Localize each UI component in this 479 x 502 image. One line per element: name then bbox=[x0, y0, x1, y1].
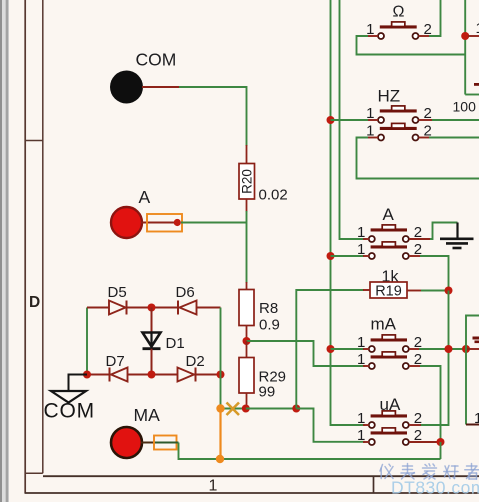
resistor R20 bbox=[239, 164, 255, 200]
label D6 bbox=[176, 284, 195, 301]
label D1 bbox=[166, 335, 185, 352]
pin labels uA row1 bbox=[357, 410, 422, 427]
resistor R29 bbox=[239, 358, 254, 394]
frame corner step bbox=[25, 472, 43, 474]
wire omega stub right edge bbox=[468, 35, 479, 37]
svg-text:HZ: HZ bbox=[378, 87, 401, 106]
wire omega right vertical bbox=[464, 0, 466, 95]
error marker X bbox=[227, 403, 240, 416]
wire bridge left vertical bbox=[86, 308, 88, 375]
label mA switch bbox=[371, 315, 397, 334]
diode D5 bbox=[109, 301, 127, 315]
switch A contacts row (A row1) bbox=[369, 225, 409, 242]
wire R29 bottom stub bbox=[246, 393, 248, 409]
diode D7 bbox=[110, 368, 128, 382]
diode D2 bbox=[178, 368, 196, 382]
wire A row1 pin2 bbox=[409, 223, 458, 240]
label COM bbox=[136, 50, 177, 70]
wire node to uA row2 bbox=[296, 409, 365, 442]
wire mA row2 pin1 stub bbox=[363, 365, 369, 367]
left window edge gray strip bbox=[0, 0, 9, 502]
wire omega pin1 bbox=[357, 36, 466, 55]
wire bridge right vertical bbox=[220, 308, 222, 409]
pin labels A row2 bbox=[357, 241, 422, 258]
svg-text:Ω: Ω bbox=[393, 4, 405, 21]
svg-text:D: D bbox=[29, 294, 40, 311]
svg-text:COM: COM bbox=[44, 400, 95, 423]
wire A row2 pin1 bbox=[331, 255, 370, 257]
terminal COM bbox=[110, 71, 143, 104]
svg-text:1: 1 bbox=[209, 478, 218, 495]
wire orange-node to R29 node bbox=[221, 408, 246, 410]
wire COM to R20 bbox=[179, 87, 247, 146]
wire main bus bbox=[331, 0, 366, 425]
wire A pin bbox=[141, 222, 150, 224]
junction R19 right bbox=[445, 287, 453, 295]
label 1k bbox=[382, 269, 400, 286]
switch MA-range contacts row (mA row1) bbox=[369, 335, 409, 352]
svg-text:1: 1 bbox=[476, 20, 479, 37]
ground COM symbol bbox=[51, 391, 86, 403]
wire uA row1 pin1 stub bbox=[363, 424, 369, 426]
orange dot node bbox=[216, 404, 224, 412]
svg-text:D7: D7 bbox=[106, 353, 125, 370]
wire orange highlighted bbox=[219, 409, 221, 460]
label D5 bbox=[108, 284, 127, 301]
junction bus A row2 bbox=[327, 252, 335, 260]
wire D1 bottom bbox=[151, 349, 153, 375]
wire R20 bottom stub bbox=[246, 199, 248, 212]
terminal A bbox=[111, 207, 142, 238]
diode D6 bbox=[178, 301, 197, 315]
junction R29 bottom bbox=[242, 405, 250, 413]
svg-text:mA: mA bbox=[371, 315, 397, 334]
pin labels HZ row2 bbox=[366, 123, 432, 140]
wire uA row2 pin2 bbox=[409, 441, 441, 443]
wire A row1 pin1 stub bbox=[363, 238, 369, 240]
fuse F2 (MA) bbox=[154, 436, 179, 450]
svg-text:R19: R19 bbox=[375, 284, 402, 300]
wire R8 to R29 bbox=[246, 341, 248, 358]
svg-text:D1: D1 bbox=[166, 335, 185, 352]
frame inner bottom border bbox=[43, 475, 479, 477]
switch UA-range pole2 contacts row (uA row2) bbox=[369, 428, 409, 445]
terminal MA bbox=[111, 427, 142, 458]
junction mA pin2 b bbox=[462, 345, 470, 353]
label omega switch bbox=[393, 4, 405, 21]
resistor R19 bbox=[370, 282, 407, 300]
pin labels omega bbox=[366, 21, 432, 38]
label MA bbox=[134, 405, 161, 425]
wire R19 to vertical bbox=[421, 290, 449, 292]
wire right edge corner bbox=[466, 316, 479, 425]
pin labels mA row2 bbox=[357, 351, 422, 368]
wire R19 left bbox=[296, 290, 370, 409]
wire uA node down bbox=[440, 442, 442, 459]
partial bar right edge bbox=[473, 337, 479, 344]
junction bus mA bbox=[327, 345, 335, 353]
switch HZ pole2 contacts row (HZ row2) bbox=[378, 123, 419, 140]
junction bus HZ bbox=[327, 116, 335, 124]
wire mA row1 pin1 bbox=[331, 348, 370, 350]
frame column label 1 bbox=[209, 478, 218, 495]
wire fuse A to R20 branch bbox=[181, 222, 247, 224]
watermark DT830.com bbox=[391, 478, 479, 498]
wire R19 right stub bbox=[407, 290, 422, 292]
junction mA pin2 a bbox=[445, 345, 453, 353]
wire omega pin2 bbox=[419, 0, 441, 36]
junction bridge top bbox=[148, 304, 156, 312]
wire MA to bottom rail bbox=[179, 443, 441, 460]
junction R8 bottom bbox=[243, 337, 251, 345]
pin labels mA row1 bbox=[357, 334, 422, 351]
svg-text:R8: R8 bbox=[259, 300, 278, 317]
frame inner left border bbox=[42, 0, 44, 473]
junction bridge bottom center bbox=[148, 371, 156, 379]
svg-text:D5: D5 bbox=[108, 284, 127, 301]
label R8 bbox=[259, 300, 278, 317]
label R20 value 0.02 bbox=[259, 187, 288, 204]
label A switch bbox=[383, 205, 395, 224]
wire omega down right bbox=[465, 94, 479, 96]
wire node to node bbox=[246, 408, 296, 410]
label D2 bbox=[186, 353, 205, 370]
partial label 1 top right edge bbox=[476, 20, 479, 37]
switch MA-range pole2 contacts row (mA row2) bbox=[369, 352, 409, 369]
wire A row2 pin2 bbox=[409, 256, 449, 291]
label uA switch bbox=[380, 395, 401, 414]
switch A pole2 contacts row (A row2) bbox=[369, 242, 409, 259]
frame outer left border bbox=[24, 0, 26, 493]
junction dot in fuse bbox=[174, 219, 181, 226]
svg-text:D2: D2 bbox=[186, 353, 205, 370]
wire uA row1 pin2 stub bbox=[409, 424, 421, 426]
wire to COM ground bbox=[69, 375, 88, 392]
junction bridge bottom right bbox=[217, 371, 225, 379]
wire R20 to R8 bbox=[246, 211, 248, 290]
watermark chinese text bbox=[380, 464, 479, 480]
frame outer bottom border bbox=[25, 492, 479, 494]
svg-text:1: 1 bbox=[474, 410, 479, 427]
pin labels HZ row1 bbox=[366, 105, 432, 122]
wire R8 bottom stub bbox=[246, 326, 248, 342]
wire HZ row2 pin1 bbox=[357, 138, 479, 179]
svg-text:A: A bbox=[383, 205, 395, 224]
wire right edge bottom stub bbox=[466, 424, 479, 426]
partial switch right edge top bbox=[474, 83, 479, 86]
label A terminal bbox=[139, 187, 151, 207]
wire R20 top stub bbox=[246, 145, 248, 164]
junction bridge bottom left bbox=[83, 371, 91, 379]
label R29 bbox=[259, 369, 287, 386]
wire MA pin bbox=[141, 442, 155, 444]
frame row label D bbox=[29, 294, 40, 311]
wire COM pin bbox=[142, 86, 179, 88]
partial label 1 right edge bbox=[474, 410, 479, 427]
label HZ switch bbox=[378, 87, 401, 106]
label COM ground bbox=[44, 400, 95, 423]
pin labels A row1 bbox=[357, 224, 422, 241]
wire mA row1 pin2 bbox=[409, 348, 466, 350]
wire bridge top row bbox=[87, 307, 221, 309]
ground symbol (A) bbox=[440, 223, 474, 249]
junction mid bottom bbox=[292, 405, 300, 413]
switch HZ contacts row (HZ row1) bbox=[378, 106, 419, 123]
svg-text:0.02: 0.02 bbox=[259, 187, 288, 204]
svg-text:R20: R20 bbox=[240, 169, 255, 194]
label R29 value 99 bbox=[259, 384, 276, 401]
wire uA row2 pin1 stub bbox=[363, 441, 369, 443]
fuse F1 (A) bbox=[147, 214, 182, 232]
label D7 bbox=[106, 353, 125, 370]
svg-text:D6: D6 bbox=[176, 284, 195, 301]
frame row tick bbox=[25, 140, 43, 142]
svg-text:0.9: 0.9 bbox=[259, 317, 280, 334]
svg-text:DT830.com: DT830.com bbox=[391, 478, 479, 498]
wire mA stub right edge bbox=[466, 348, 479, 350]
label 100 bbox=[453, 99, 477, 115]
wire mA row2 pin2 bbox=[409, 366, 441, 442]
wire bridge bottom row bbox=[87, 374, 221, 376]
diode D1 bbox=[143, 333, 161, 349]
svg-text:A: A bbox=[139, 187, 151, 207]
wire R8 to mA row2 bbox=[247, 341, 366, 366]
svg-text:100: 100 bbox=[453, 99, 477, 115]
wire HZ row1 pin1 bbox=[331, 119, 379, 121]
resistor R8 bbox=[239, 290, 254, 326]
wire right vertical 448 bbox=[420, 291, 449, 426]
frame column divider bbox=[373, 476, 375, 493]
svg-text:COM: COM bbox=[136, 50, 177, 70]
label R8 value 0.9 bbox=[259, 317, 280, 334]
orange dot bottom rail bbox=[216, 455, 224, 463]
wire D1 top bbox=[151, 308, 153, 333]
switch UA-range contacts row (uA row1) bbox=[369, 411, 409, 428]
svg-text:99: 99 bbox=[259, 384, 276, 401]
wire HZ row1 pin2 bbox=[419, 119, 479, 121]
switch OMEGA contacts row (omega) bbox=[378, 22, 419, 39]
wire HZ row2 pin2 bbox=[419, 137, 479, 139]
svg-text:MA: MA bbox=[134, 405, 161, 425]
junction omega right bbox=[461, 32, 469, 40]
junction uA row2 pin2 bbox=[437, 438, 445, 446]
pin labels uA row2 bbox=[357, 427, 422, 444]
wire second bus to A row1 bbox=[340, 0, 367, 239]
